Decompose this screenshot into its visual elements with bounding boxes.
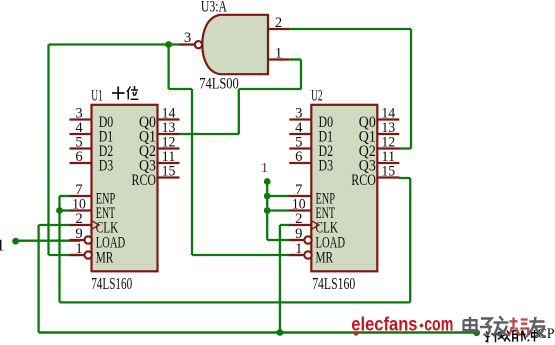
U2 pin 15 RCO stub — [377, 176, 399, 178]
watermark glyph YOU (friend) — [529, 317, 546, 337]
svg-text:74LS00: 74LS00 — [199, 76, 239, 93]
svg-text:3: 3 — [184, 30, 191, 46]
svg-text:MR: MR — [96, 249, 114, 266]
wire Q1 net: horizontal under gate — [239, 88, 301, 90]
IC U1 74LS160 body — [92, 105, 158, 271]
wire NAND output branch: vertical between chips — [191, 89, 193, 255]
svg-text:1: 1 — [275, 46, 282, 62]
U1 pin 4 D1 stub — [70, 133, 92, 135]
label glyph JI (count) — [485, 330, 499, 342]
U2 pin 1 MR stub — [289, 254, 307, 256]
U2 CLK edge triangle — [312, 221, 319, 229]
wire logic-1 into U2 LOAD — [267, 239, 300, 241]
svg-text:D3: D3 — [319, 157, 334, 174]
label glyph CHONG (impulse) — [528, 330, 538, 342]
U3:A pin 2 stub — [268, 28, 289, 30]
wire NAND output net: left vertical down — [47, 45, 49, 256]
watermark glyph SHAO (burn) red accent — [509, 318, 529, 337]
wire logic-1 into U2 ENP — [267, 195, 290, 197]
U1 pin 13 Q1 stub — [158, 133, 180, 135]
svg-text:com: com — [424, 314, 453, 335]
wire NAND output net: into U1 MR pin — [49, 254, 81, 256]
terminal dot of logic-1 net left — [12, 238, 19, 245]
wire NAND output branch: horizontal jog — [169, 88, 192, 90]
svg-text:MR: MR — [316, 249, 334, 266]
U3:A pin 1 stub — [268, 58, 289, 60]
svg-text:15: 15 — [381, 164, 395, 180]
U1 pin 1 MR stub — [70, 254, 88, 256]
svg-text:RCO: RCO — [132, 172, 157, 189]
svg-text:15: 15 — [162, 164, 176, 180]
wire RCO net: into U1 ENT pin 10 — [60, 209, 71, 211]
label glyph MAI (pulse-vein) — [513, 330, 526, 342]
svg-text:U2: U2 — [311, 87, 323, 104]
svg-text:9: 9 — [75, 226, 82, 242]
U1 CLK edge triangle — [92, 221, 99, 229]
svg-text:9: 9 — [295, 226, 302, 242]
U2 pin 12 Q2 stub — [377, 147, 399, 149]
wire NAND output branch: vertical from junction — [167, 45, 169, 90]
wire Q1 net: vertical at x301 — [300, 60, 302, 90]
U1 pin 9 LOAD stub — [70, 239, 88, 241]
wire U2 CLK: horizontal — [280, 224, 290, 226]
annotation glyph SHI (ten) — [112, 87, 125, 100]
svg-text:1: 1 — [0, 236, 5, 255]
U2 pin 2 CLK stub — [289, 224, 311, 226]
wire logic-1 net at U2: vertical — [266, 182, 268, 241]
U2 pin 7 ENP stub — [289, 195, 311, 197]
wire Q1 net: vertical down — [238, 89, 240, 134]
svg-text:2: 2 — [295, 211, 302, 227]
wire U2 CLK: vertical down to CP line — [279, 225, 281, 333]
U2 pin 6 D3 stub — [289, 162, 311, 164]
wire RCO net: vertical down right side — [409, 178, 411, 302]
U1 pin 9 LOAD bubble — [85, 236, 92, 243]
U2 pin 10 ENT stub — [289, 209, 311, 211]
watermark separator diamond — [419, 323, 424, 328]
IC U2 74LS160 body — [311, 105, 377, 271]
U3:A output bubble pin 3 — [195, 41, 202, 48]
U1 pin 7 ENP stub — [70, 195, 92, 197]
junction logic-1 top — [264, 178, 271, 185]
svg-text:2: 2 — [275, 15, 282, 31]
junction logic-1 at ENT — [264, 207, 271, 214]
label glyph SHU (number) — [498, 330, 510, 341]
svg-text:U3:A: U3:A — [201, 0, 228, 16]
svg-text:74LS160: 74LS160 — [312, 274, 355, 293]
U2 pin 13 Q1 stub — [377, 133, 399, 135]
wire U2 RCO to U1 ENP/ENT: from pin 15 — [399, 177, 410, 179]
U1 pin 3 D0 stub — [70, 118, 92, 120]
U2 pin 3 D0 stub — [289, 118, 311, 120]
svg-text:1: 1 — [75, 241, 82, 257]
wire U1 CLK to CP line: horizontal — [39, 224, 70, 226]
wire Q1 net: into U1 pin 13 — [179, 133, 239, 135]
wire RCO net: vertical up to U1 ENP — [58, 196, 60, 302]
wire Q2 net: vertical down to pin 12 — [410, 29, 412, 149]
U2 pin 9 LOAD bubble — [304, 236, 311, 243]
watermark glyph FA (emit) — [493, 316, 509, 336]
U1 pin 12 Q2 stub — [158, 147, 180, 149]
junction logic-1 at ENP — [264, 193, 271, 200]
U2 pin 5 D2 stub — [289, 147, 311, 149]
wire RCO net: long horizontal return — [60, 301, 411, 303]
U1 pin 14 Q0 stub — [158, 118, 180, 120]
wire CP net: left vertical down — [37, 225, 39, 333]
wire logic-1 into U2 ENT — [267, 209, 290, 211]
U1 pin 1 MR bubble — [85, 251, 92, 258]
watermark red swoosh tick — [353, 332, 359, 335]
svg-text:6: 6 — [295, 149, 303, 165]
svg-text:1: 1 — [261, 160, 268, 175]
junction at U1 ENT tap — [56, 207, 63, 214]
wire NAND output branch: into U2 MR pin — [192, 254, 300, 256]
wire Q2 net: into U2 pin 12 — [399, 147, 411, 149]
junction CP at U2 CLK — [277, 329, 284, 336]
svg-text:U1: U1 — [91, 87, 103, 104]
svg-text:74LS160: 74LS160 — [91, 274, 132, 293]
wire NAND output to U1 MR: horizontal top segment — [49, 43, 181, 45]
wire CP net: bottom horizontal — [39, 331, 476, 334]
svg-text:2: 2 — [75, 211, 82, 227]
U2 pin 9 LOAD stub — [289, 239, 307, 241]
U2 pin 14 Q0 stub — [377, 118, 399, 120]
U2 pin 4 D1 stub — [289, 133, 311, 135]
U1 pin 2 CLK stub — [70, 224, 92, 226]
wire RCO net: into U1 ENP pin 7 — [60, 195, 71, 197]
watermark glyph ZI (child) — [480, 319, 492, 336]
svg-text:elecfans: elecfans — [351, 314, 417, 335]
svg-text:RCO: RCO — [351, 172, 376, 189]
U1 pin 10 ENT stub — [70, 209, 92, 211]
svg-text:6: 6 — [75, 149, 83, 165]
U2 pin 11 Q3 stub — [377, 162, 399, 164]
terminal dot CP right end — [473, 329, 480, 336]
U3:A pin 3 stub — [180, 43, 195, 45]
svg-text:1: 1 — [295, 241, 302, 257]
wire logic-1 net to U1 LOAD — [16, 240, 80, 242]
annotation glyph WEI (position) — [127, 86, 138, 100]
svg-text:D3: D3 — [99, 157, 114, 174]
junction at NAND output branch — [165, 41, 172, 48]
U1 pin 5 D2 stub — [70, 147, 92, 149]
U1 pin 6 D3 stub — [70, 162, 92, 164]
U2 pin 1 MR bubble — [304, 251, 311, 258]
NAND gate U3:A body (mirrored) — [202, 15, 268, 74]
U1 pin 11 Q3 stub — [158, 162, 180, 164]
U1 pin 15 RCO stub — [158, 176, 180, 178]
watermark glyph DIAN (electric) — [464, 317, 479, 332]
wire NAND pin2 to U2 Q2: horizontal top — [289, 28, 411, 30]
wire U1 Q1 pin13 to NAND pin1: from gate stub right — [289, 58, 301, 60]
